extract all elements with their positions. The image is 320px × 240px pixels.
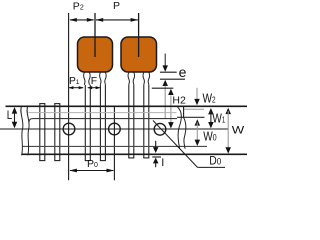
svg-text:W2: W2 (203, 90, 216, 106)
sprocket hole 2 (109, 123, 121, 135)
hold tape bottom edge (22, 145, 207, 147)
hold tape upper gray line (29, 112, 177, 114)
hold tape end step vertical (183, 107, 185, 118)
sprocket hole 3 (154, 123, 166, 135)
dimension P1 arrow (69, 86, 84, 89)
dimension F arrow (87, 86, 100, 89)
dimension e upper tick line (160, 71, 177, 73)
capacitor C1 right lead crimp (100, 72, 106, 85)
capacitor C2 left lead wire (128, 85, 134, 158)
wire extension line through hole 1 (vertical reference V1) (68, 13, 70, 180)
dimension e up arrow (162, 80, 168, 118)
svg-text:P: P (113, 0, 120, 12)
capacitor C1 right lead wire (100, 85, 106, 161)
wire center line of capacitor C2 (138, 13, 140, 57)
svg-text:H2: H2 (172, 95, 186, 107)
hold tape end step line (184, 108, 204, 110)
dimension W1 arrow (208, 108, 214, 128)
dimension P2 arrow (69, 18, 94, 22)
dimension L arrow (12, 107, 18, 128)
dimension e lower tick line (160, 78, 185, 80)
capacitor C2 left lead crimp (128, 72, 134, 85)
svg-text:L: L (7, 109, 12, 122)
svg-text:D0: D0 (209, 155, 221, 168)
hold tape right break curve 1 (178, 107, 182, 148)
wire center line of capacitor C1 (94, 13, 96, 57)
sprocket hole 1 (63, 123, 75, 135)
cut-off component lead wire left (39, 104, 45, 161)
dimension W arrow (225, 108, 231, 154)
capacitor C2 right lead wire (143, 85, 149, 158)
capacitor C2 right lead crimp (143, 72, 149, 85)
tape left break curve 1 (21, 106, 23, 155)
svg-text:F: F (91, 76, 97, 87)
dimension H2 arrows (168, 89, 174, 129)
capacitor C1 body (78, 37, 113, 72)
dimension P0 arrow (69, 169, 114, 173)
cut-off component lead wire right (54, 104, 60, 161)
tape left break curve 2 (27, 106, 29, 155)
svg-text:W0: W0 (203, 129, 217, 144)
svg-text:P2: P2 (73, 0, 84, 12)
dimension I arrows (153, 141, 159, 167)
hole center line (0, 128, 228, 130)
dimension W0 arrow (195, 119, 201, 146)
dimension P arrow (96, 18, 139, 22)
tape bottom edge (22, 153, 248, 155)
dimension e down arrow (162, 54, 168, 72)
hold tape top edge right segment (177, 116, 205, 118)
capacitor C1 left lead wire (85, 85, 91, 161)
svg-text:P0: P0 (87, 158, 98, 170)
short line for I dimension (152, 156, 161, 158)
dimension W2 arrow (194, 88, 200, 105)
capacitor C2 body (121, 37, 157, 72)
svg-text:e: e (179, 64, 187, 80)
svg-text:P1: P1 (69, 76, 80, 87)
svg-text:W: W (232, 123, 245, 136)
wire extension line through hole 2 (vertical reference V2ext) (113, 107, 115, 180)
leader line for D0 (153, 121, 225, 168)
capacitor C1 left lead crimp (84, 72, 90, 85)
tape top edge (6, 105, 248, 107)
hold tape right break curve 2 (184, 118, 186, 149)
hold tape top edge (29, 119, 177, 122)
svg-text:I: I (161, 157, 164, 169)
svg-text:W1: W1 (212, 111, 225, 126)
seating tick line for H2 (152, 87, 174, 89)
